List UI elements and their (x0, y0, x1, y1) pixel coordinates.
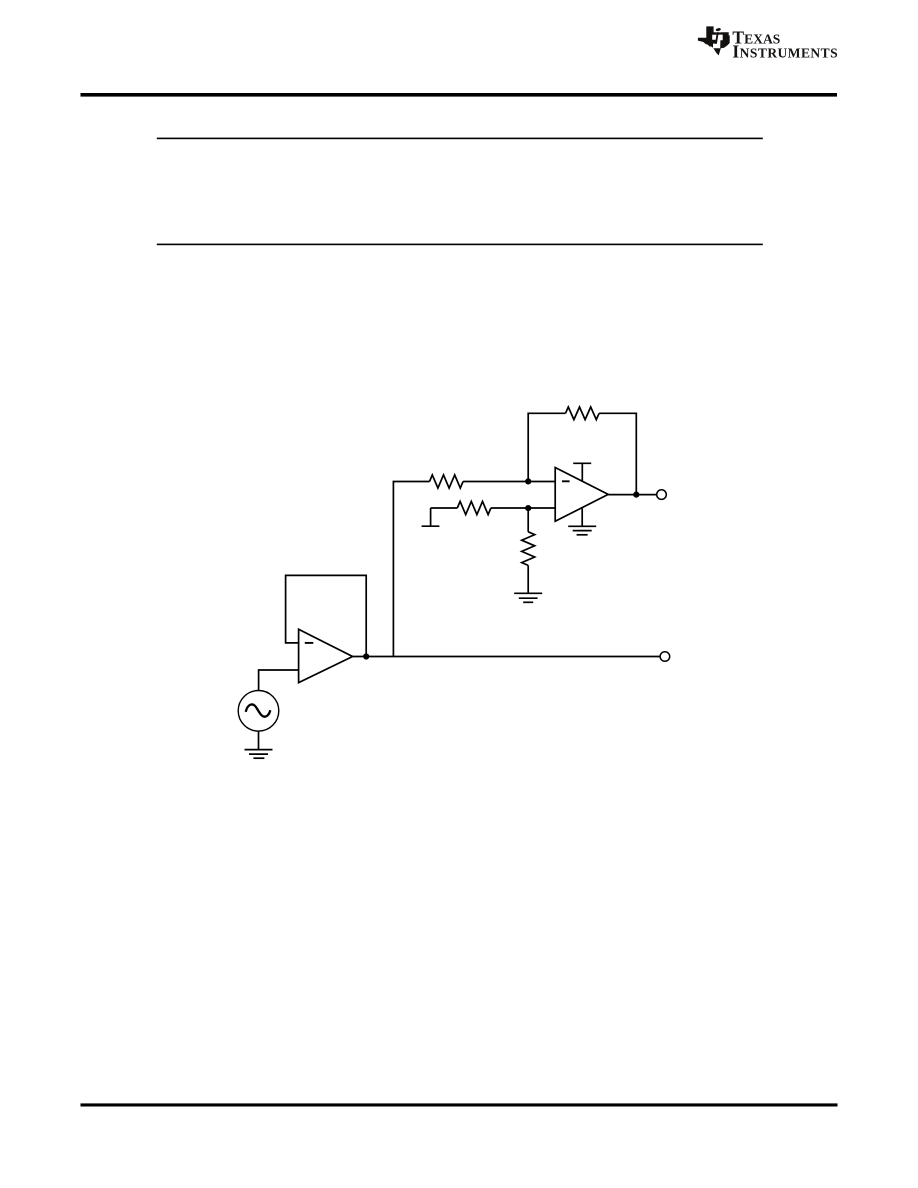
node dot: U1 output node (363, 653, 369, 659)
source VS sine generator (238, 691, 279, 732)
table rule bottom (157, 244, 763, 246)
ground G2 below U2 (568, 526, 596, 535)
table rule top (157, 138, 763, 140)
op-amp U1 buffer (299, 629, 353, 682)
V- supply wire of U2 (581, 508, 583, 526)
wire: R1 to U2 inverting input (463, 481, 555, 483)
wire: U1 feedback loop (286, 575, 367, 656)
TI logo black i stem and dot (715, 28, 721, 44)
ground G1 below R4 (514, 593, 542, 602)
wire: T-bar to R3 (431, 507, 458, 509)
wire: U1 output long run (353, 656, 661, 658)
resistor R3 non-inverting input of U2 (457, 501, 491, 514)
output terminal of U2 (657, 490, 667, 500)
wire: R4 to ground (527, 565, 529, 593)
node dot: U2 output node (633, 492, 639, 498)
TI wordmark line 1 TEXAS (732, 28, 780, 48)
output terminal of U1 (660, 652, 670, 662)
node dot: non-inverting input node (525, 505, 531, 511)
TI wordmark line 2 INSTRUMENTS (732, 42, 838, 62)
wire: U1 non-inverting input from source (259, 670, 299, 691)
header rule (81, 93, 838, 97)
terminal T-bar on left of R3 (430, 508, 432, 526)
ground G3 below source (245, 750, 273, 759)
op-amp U2 difference stage (555, 468, 608, 522)
wire: R3 to U2 non-inverting input (491, 507, 555, 509)
TI logo Texas-map glyph (698, 26, 730, 55)
wire: node down to R4 (527, 508, 529, 532)
resistor R1 inverting input of U2 (430, 475, 464, 488)
resistor R2 feedback of U2 (566, 407, 600, 420)
V+ supply T of U2 (573, 463, 591, 481)
TI logo white ti knockout (712, 31, 723, 48)
wire: feedback right drop to output node (599, 413, 636, 494)
wire: trunk from U1 output up to inverting net (393, 482, 429, 657)
resistor R4 to ground (522, 532, 535, 566)
footer rule (81, 1103, 838, 1106)
wire: feedback top run of U2 (528, 413, 565, 481)
node dot: inverting input node (525, 478, 531, 484)
wire: U2 output (608, 494, 656, 496)
wire: source to ground (258, 731, 260, 750)
